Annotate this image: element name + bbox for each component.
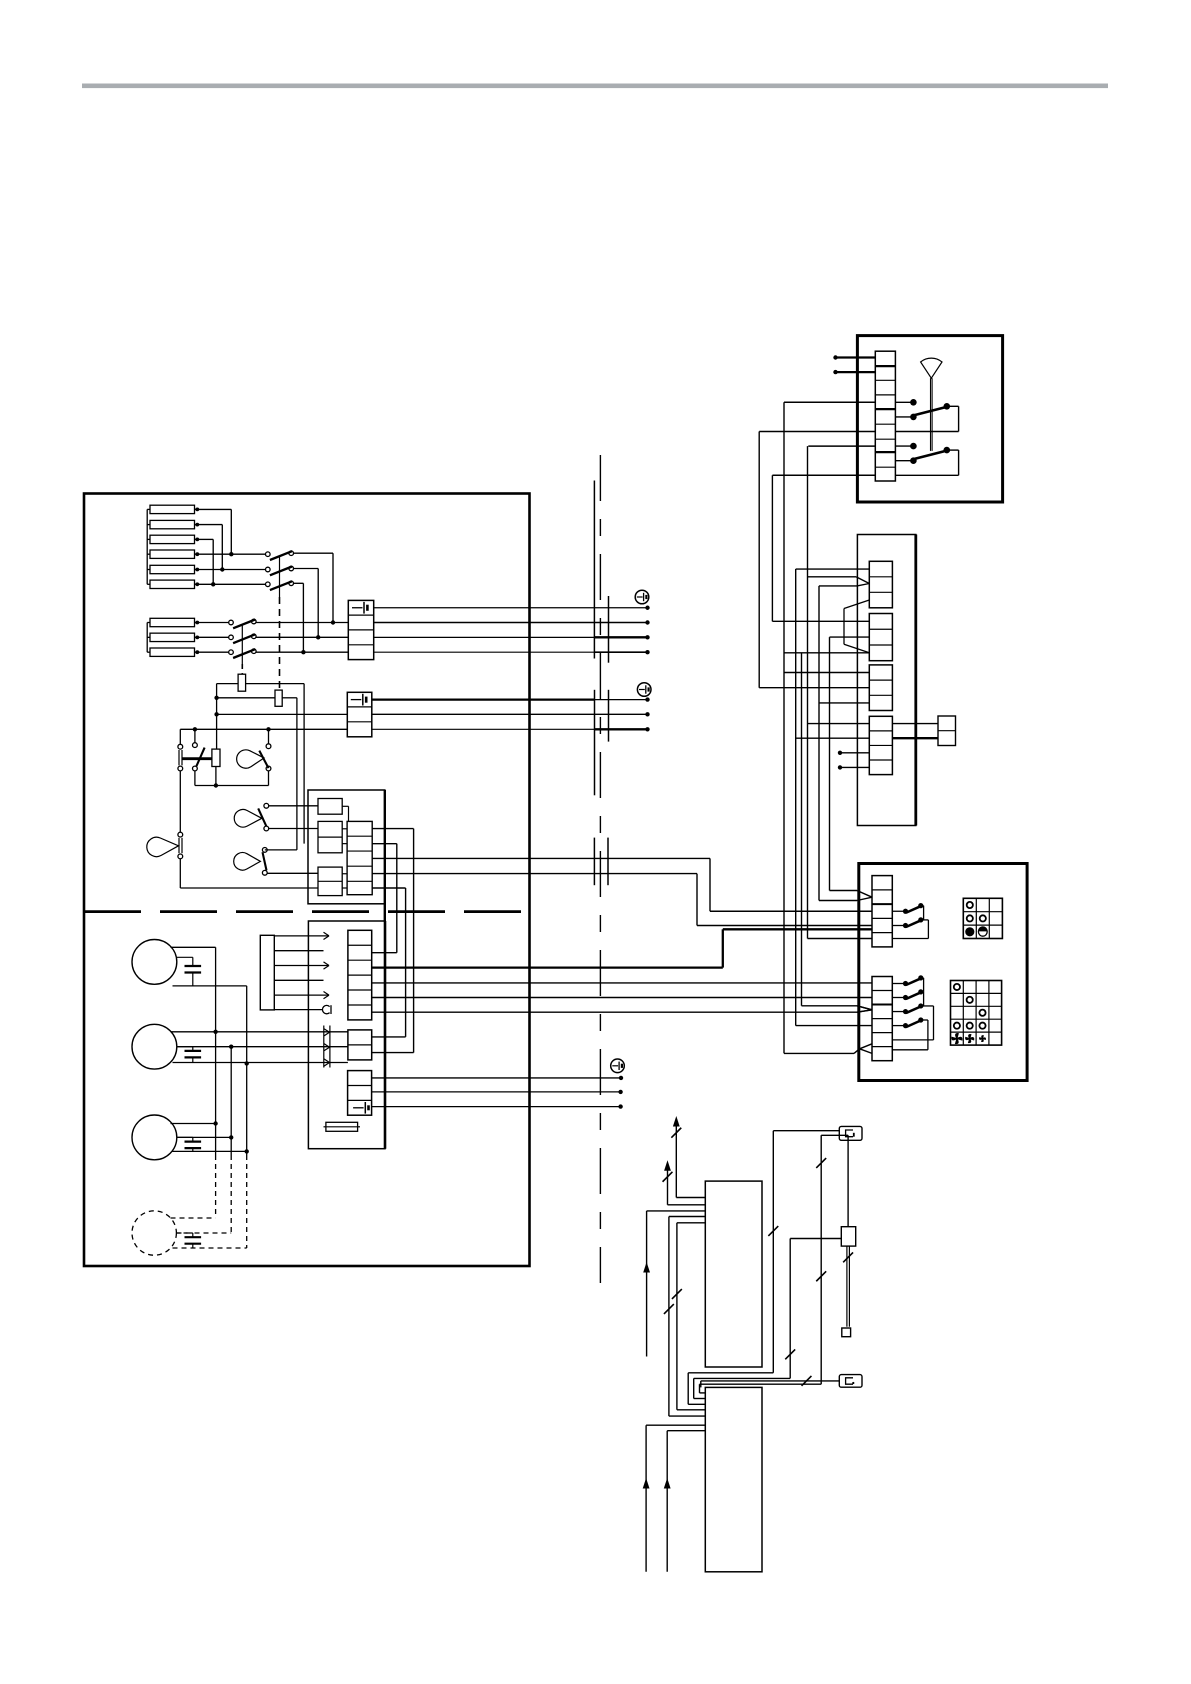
panel switch B3 bbox=[892, 1003, 923, 1014]
wire TB1 pin3 out bbox=[374, 636, 648, 638]
wire into P4 c2 bbox=[796, 737, 870, 739]
programmer strip 1 bbox=[348, 930, 372, 1020]
wire right loop 2 bbox=[694, 1239, 842, 1399]
wire relay drop a bbox=[405, 888, 407, 1037]
wire v784 into panel merge bbox=[784, 1049, 860, 1054]
wire strip1 c6 long bbox=[372, 1010, 872, 1012]
wire bank1 row2-row5 bbox=[199, 525, 225, 572]
wire S2a to block TB1 bbox=[256, 622, 348, 624]
connector strip P3 bbox=[869, 665, 892, 711]
wire bank2 row1 to switch bbox=[199, 622, 229, 624]
panel strip B bbox=[872, 977, 892, 1061]
routing vertical v829 bbox=[829, 637, 831, 890]
wire T2 bottom to relay box bbox=[269, 828, 318, 830]
wire into P3 c3 bbox=[819, 702, 869, 704]
fuse F3 bbox=[324, 1122, 361, 1131]
relay box (oven control) bbox=[308, 790, 385, 921]
wire strip c3 to bars G3 bbox=[372, 857, 710, 859]
wire fan-box c7 down bbox=[808, 446, 876, 938]
wire S2c to block TB1 bbox=[256, 651, 348, 653]
wire M2 mid lead bbox=[177, 1045, 348, 1049]
relay contact block R2 bbox=[318, 821, 342, 852]
terminal dot P4 c3 bbox=[838, 751, 870, 755]
control panel box bbox=[859, 864, 1027, 1081]
legend grid A bbox=[963, 898, 1002, 938]
wire R1 to strip bbox=[342, 806, 348, 821]
plug connector A bbox=[839, 1126, 862, 1140]
wire M3 top lead bbox=[171, 1123, 216, 1125]
wire bank1 row6 to switch bbox=[199, 583, 266, 585]
vertical bus to relay K bbox=[214, 684, 218, 750]
switch SWB bbox=[193, 729, 205, 771]
wire strip1 c3 long bbox=[372, 929, 872, 967]
heater bank 2 left bus bbox=[147, 623, 150, 653]
jumper P1c3 to P2c3 bbox=[844, 600, 869, 653]
ground symbol in strip 3 bbox=[353, 1102, 368, 1114]
wire bank2 row3 to switch bbox=[199, 651, 229, 653]
capacitor C1 bbox=[177, 957, 202, 986]
wire strip1 c5 long bbox=[372, 997, 872, 999]
ground symbol in TB1 bbox=[352, 602, 367, 614]
wire M4 bottom lead dashed bbox=[173, 1247, 247, 1249]
thermostat T3 bbox=[234, 848, 267, 876]
wire to connector C bbox=[701, 1376, 840, 1387]
comb wire 6 with hook bbox=[274, 1005, 331, 1014]
motor M4 (dashed) bbox=[132, 1211, 176, 1255]
dashed divider inside left box bbox=[84, 910, 530, 913]
fan switch 2 bbox=[895, 443, 958, 475]
wire v801 into panel merge bbox=[802, 1006, 873, 1010]
wire loop upper-lower 1 bbox=[664, 1217, 705, 1417]
comb wire 4 bbox=[274, 979, 323, 981]
legend grid B marks bbox=[952, 984, 986, 1044]
plug connector C bbox=[839, 1375, 862, 1388]
bus A dashed tail bbox=[215, 1155, 217, 1218]
wire M3 bottom lead bbox=[173, 1150, 247, 1152]
wire TB2 pin2 out bbox=[372, 713, 648, 715]
sensor box B bbox=[841, 1227, 855, 1246]
top horizontal rule bbox=[82, 84, 1108, 89]
heater bank 1 elements bbox=[150, 505, 195, 588]
connector bars G3 bbox=[594, 838, 608, 886]
legend grid A marks bbox=[965, 902, 987, 937]
fan switch 1 bbox=[895, 399, 958, 432]
wire strip1 c2 bbox=[372, 952, 397, 954]
wire v795 into panel B4 bbox=[796, 1025, 872, 1027]
connector strip P4 bbox=[869, 716, 892, 774]
ignition box lower bbox=[705, 1387, 762, 1571]
wire S2b to block TB1 bbox=[256, 636, 348, 638]
bus B dashed tail bbox=[230, 1155, 232, 1233]
wire into P3 c1 bbox=[784, 672, 869, 674]
heater bank 1 right pins bbox=[195, 508, 200, 587]
wire TB2 ground out bbox=[372, 698, 648, 700]
terminal dot P4 c4 bbox=[838, 765, 870, 769]
programmer strip 2 bbox=[348, 1030, 372, 1060]
wire T2 top to relay box bbox=[269, 805, 318, 807]
wire P4c1 to aux block bbox=[892, 723, 938, 725]
wire M1 top lead bbox=[171, 946, 216, 948]
relay coil K bbox=[212, 749, 220, 766]
panel switch A2 bbox=[892, 917, 923, 928]
bus B vertical bbox=[229, 1047, 233, 1155]
legend grid B bbox=[951, 981, 1002, 1046]
switch S1c bank1 bbox=[266, 581, 294, 590]
motor M3 bbox=[132, 1115, 177, 1160]
wire jog down to panel cell A3 bbox=[710, 858, 872, 911]
wire v807 into panel A5 bbox=[808, 938, 873, 940]
comb wire 1 with arrow bbox=[274, 932, 329, 939]
wire loop upper-lower 2 bbox=[672, 1223, 705, 1410]
arrow wire up 1 bbox=[671, 1116, 681, 1198]
center boundary dash-dot line bbox=[599, 455, 601, 1283]
routing vertical v795 bbox=[795, 569, 797, 1026]
switch S2a bank2 bbox=[229, 619, 256, 628]
wire S1c to node bbox=[293, 583, 305, 654]
sensor probe tip bbox=[842, 1328, 851, 1337]
connector box (middle right) bbox=[857, 535, 915, 826]
fan box input dot 1 bbox=[833, 355, 875, 359]
heater bank 2 elements bbox=[150, 618, 195, 656]
mains comb connector bbox=[260, 935, 274, 1010]
wire into upper box 3 bbox=[643, 1211, 705, 1357]
wire TB1 pin2 out bbox=[374, 622, 648, 624]
ignition box upper bbox=[705, 1181, 762, 1367]
wire bank1 row4 to switch bbox=[199, 553, 266, 555]
merge into A2 bbox=[857, 891, 872, 901]
wire M3 mid lead bbox=[177, 1136, 232, 1138]
circled ground G2 bbox=[637, 683, 651, 697]
wire M4 mid lead dashed bbox=[177, 1232, 232, 1234]
terminal block TB1 bbox=[348, 600, 373, 659]
mechanical link SWA-K bbox=[182, 757, 212, 760]
wire TB2 pin3 out bbox=[372, 728, 648, 730]
wire jog down to panel cell A4 bbox=[697, 874, 872, 926]
wire fan-box c4 down bbox=[784, 402, 875, 1053]
wire into P2 c3 bbox=[784, 652, 869, 654]
wire T3 top bbox=[265, 849, 297, 851]
wire bus to TB2 pin2 bbox=[217, 713, 348, 715]
bank1 switch actuator link bbox=[279, 557, 281, 689]
panel switch B2 bbox=[892, 989, 923, 1000]
comb wire 5 with arrow bbox=[274, 992, 329, 999]
wire into P4 c1 bbox=[808, 723, 870, 725]
wire strip3 c2 out bbox=[372, 1091, 621, 1093]
wire M4 top lead dashed bbox=[171, 1217, 216, 1219]
wire node row to TB2 pin3 bbox=[180, 727, 347, 731]
motor M2 bbox=[132, 1024, 177, 1069]
wire M1 bottom lead bbox=[173, 985, 247, 987]
wire into P1 c2 merge bbox=[808, 577, 870, 586]
terminal dots G4 bbox=[618, 1076, 623, 1109]
switch S2c bank2 bbox=[229, 649, 256, 658]
wire strip c4 to bars G3 bbox=[372, 873, 697, 875]
switch S1a bank1 bbox=[266, 551, 294, 560]
wire TB1 ground out bbox=[374, 607, 648, 609]
thermostat T4 bbox=[147, 771, 183, 859]
wire v829 into panel merge upper bbox=[830, 890, 858, 892]
thermostat T2 bbox=[234, 803, 268, 831]
bus C dashed tail bbox=[246, 1155, 248, 1248]
wire T4 down to relay box bbox=[180, 859, 318, 888]
routing vertical v819 bbox=[818, 586, 820, 901]
arrowheads motor feed bbox=[324, 1029, 330, 1066]
diverge from B5-B6 bbox=[860, 1044, 872, 1054]
wire into P3 c2 bbox=[759, 687, 869, 689]
programmer strip 3 bbox=[348, 1071, 372, 1116]
wire F1 down to relay box bbox=[303, 684, 305, 844]
relay contact block R1 bbox=[318, 799, 342, 815]
wire relay strip c5 out bbox=[372, 887, 405, 889]
wire strip2 c1 from relay bbox=[372, 1036, 406, 1038]
thermal fuse F1 bbox=[217, 674, 305, 691]
thermostat T1 bbox=[237, 729, 271, 771]
comb wire 3 with arrow bbox=[274, 962, 329, 969]
connector strip P1 bbox=[869, 561, 892, 608]
wire into P2 c1 bbox=[772, 620, 869, 622]
terminal dots G1 bbox=[645, 606, 649, 655]
wire bank2 row2 to switch bbox=[199, 636, 229, 638]
motor M1 bbox=[132, 940, 177, 985]
wire into upper box 1 bbox=[676, 1197, 705, 1199]
panel switch B1 bbox=[892, 975, 923, 986]
sensor probe line bbox=[843, 1246, 853, 1327]
wire M2 bottom lead bbox=[173, 1062, 348, 1064]
circled ground G1 bbox=[635, 590, 649, 604]
relay contact block R3 bbox=[318, 867, 342, 896]
wire strip2 c2 from relay bbox=[372, 1052, 414, 1054]
relay box strip bbox=[347, 821, 372, 894]
merge into B3 bbox=[857, 1006, 872, 1012]
fan box strip bbox=[875, 351, 895, 481]
switch S2b bank2 bbox=[229, 634, 256, 643]
fan box bbox=[857, 336, 1002, 502]
panel switch B wiring bbox=[892, 978, 933, 1050]
wire fan-box c9 down bbox=[772, 475, 875, 621]
wire into lower box left 1 bbox=[643, 1425, 706, 1572]
wire down to switch SWA bbox=[179, 729, 181, 744]
fan symbol bbox=[921, 358, 942, 451]
wire bank1 row1-row4 bbox=[199, 509, 234, 556]
wire bank1 row5 to switch bbox=[199, 569, 266, 571]
wire right loop 1 bbox=[688, 1131, 839, 1405]
heater bank 1 left bus bbox=[147, 509, 150, 584]
wire strip1 c4 long bbox=[372, 982, 872, 984]
capacitor C3 bbox=[177, 1137, 202, 1151]
wire strip c2 down bbox=[372, 844, 397, 953]
comb wire 2 bbox=[274, 950, 323, 952]
bus A vertical bbox=[213, 947, 217, 1155]
terminal dots G2 bbox=[645, 697, 649, 731]
control box (programmer) bbox=[308, 921, 385, 1149]
wire into upper box 2 bbox=[668, 1204, 706, 1206]
wire strip3 c1 out bbox=[372, 1077, 621, 1079]
capacitor C2 bbox=[177, 1047, 202, 1063]
panel switch A1 bbox=[892, 903, 923, 914]
panel strip A bbox=[872, 876, 892, 947]
wire into P2 c2 bbox=[830, 636, 870, 638]
arrow wire up 2 bbox=[663, 1160, 673, 1205]
wire str3 ground out bbox=[372, 1106, 621, 1108]
bank2 switch actuator link bbox=[241, 625, 243, 674]
wire bank1 row3-row6 bbox=[199, 539, 215, 586]
connector strip P2 bbox=[869, 614, 892, 661]
panel switch B4 bbox=[892, 1017, 923, 1028]
wire P4c2 to aux block bbox=[892, 737, 938, 739]
circled ground G4 bbox=[611, 1059, 625, 1073]
connector bars motor feed bbox=[324, 1026, 330, 1068]
enclosure box (left appliance) bbox=[84, 494, 530, 1267]
wire F2 down to T3 bbox=[296, 698, 298, 850]
panel switch A wiring bbox=[892, 906, 928, 939]
wire strip c1 down bbox=[372, 829, 413, 1053]
wire v819 into panel merge lower bbox=[819, 900, 857, 902]
switch SWA bbox=[178, 744, 183, 771]
wire S1b to node bbox=[293, 569, 320, 640]
capacitor C4 (dashed leads) bbox=[177, 1233, 202, 1248]
fan box input dot 2 bbox=[833, 370, 875, 374]
wire M2 top lead bbox=[171, 1031, 348, 1033]
thermal fuse F2 bbox=[217, 690, 297, 706]
wire right loop 3 bbox=[700, 1135, 849, 1393]
connector bars G2 bbox=[595, 690, 609, 796]
wire into P1 c1 bbox=[796, 568, 870, 570]
heater bank 2 right pins bbox=[195, 621, 200, 655]
aux block right of connector box bbox=[938, 716, 956, 746]
wire T3 bottom to relay box bbox=[267, 872, 318, 874]
wire into lower box left 2 bbox=[664, 1431, 706, 1572]
wire TB1 pin4 out bbox=[374, 651, 648, 653]
links R2-R3 to strip bbox=[342, 829, 347, 888]
wire bottom link SWB-T1 bbox=[195, 771, 269, 786]
ground symbol in TB2 bbox=[351, 694, 366, 706]
terminal block TB2 bbox=[347, 692, 372, 737]
connector bars G1 bbox=[594, 481, 608, 663]
wire S1a to node bbox=[293, 553, 335, 625]
switch S1b bank1 bbox=[266, 566, 294, 575]
wire fan-box c6 down bbox=[759, 432, 875, 688]
bus C vertical bbox=[245, 986, 249, 1155]
wire K bottom bbox=[214, 767, 218, 788]
routing vertical v801 bbox=[801, 653, 803, 1006]
